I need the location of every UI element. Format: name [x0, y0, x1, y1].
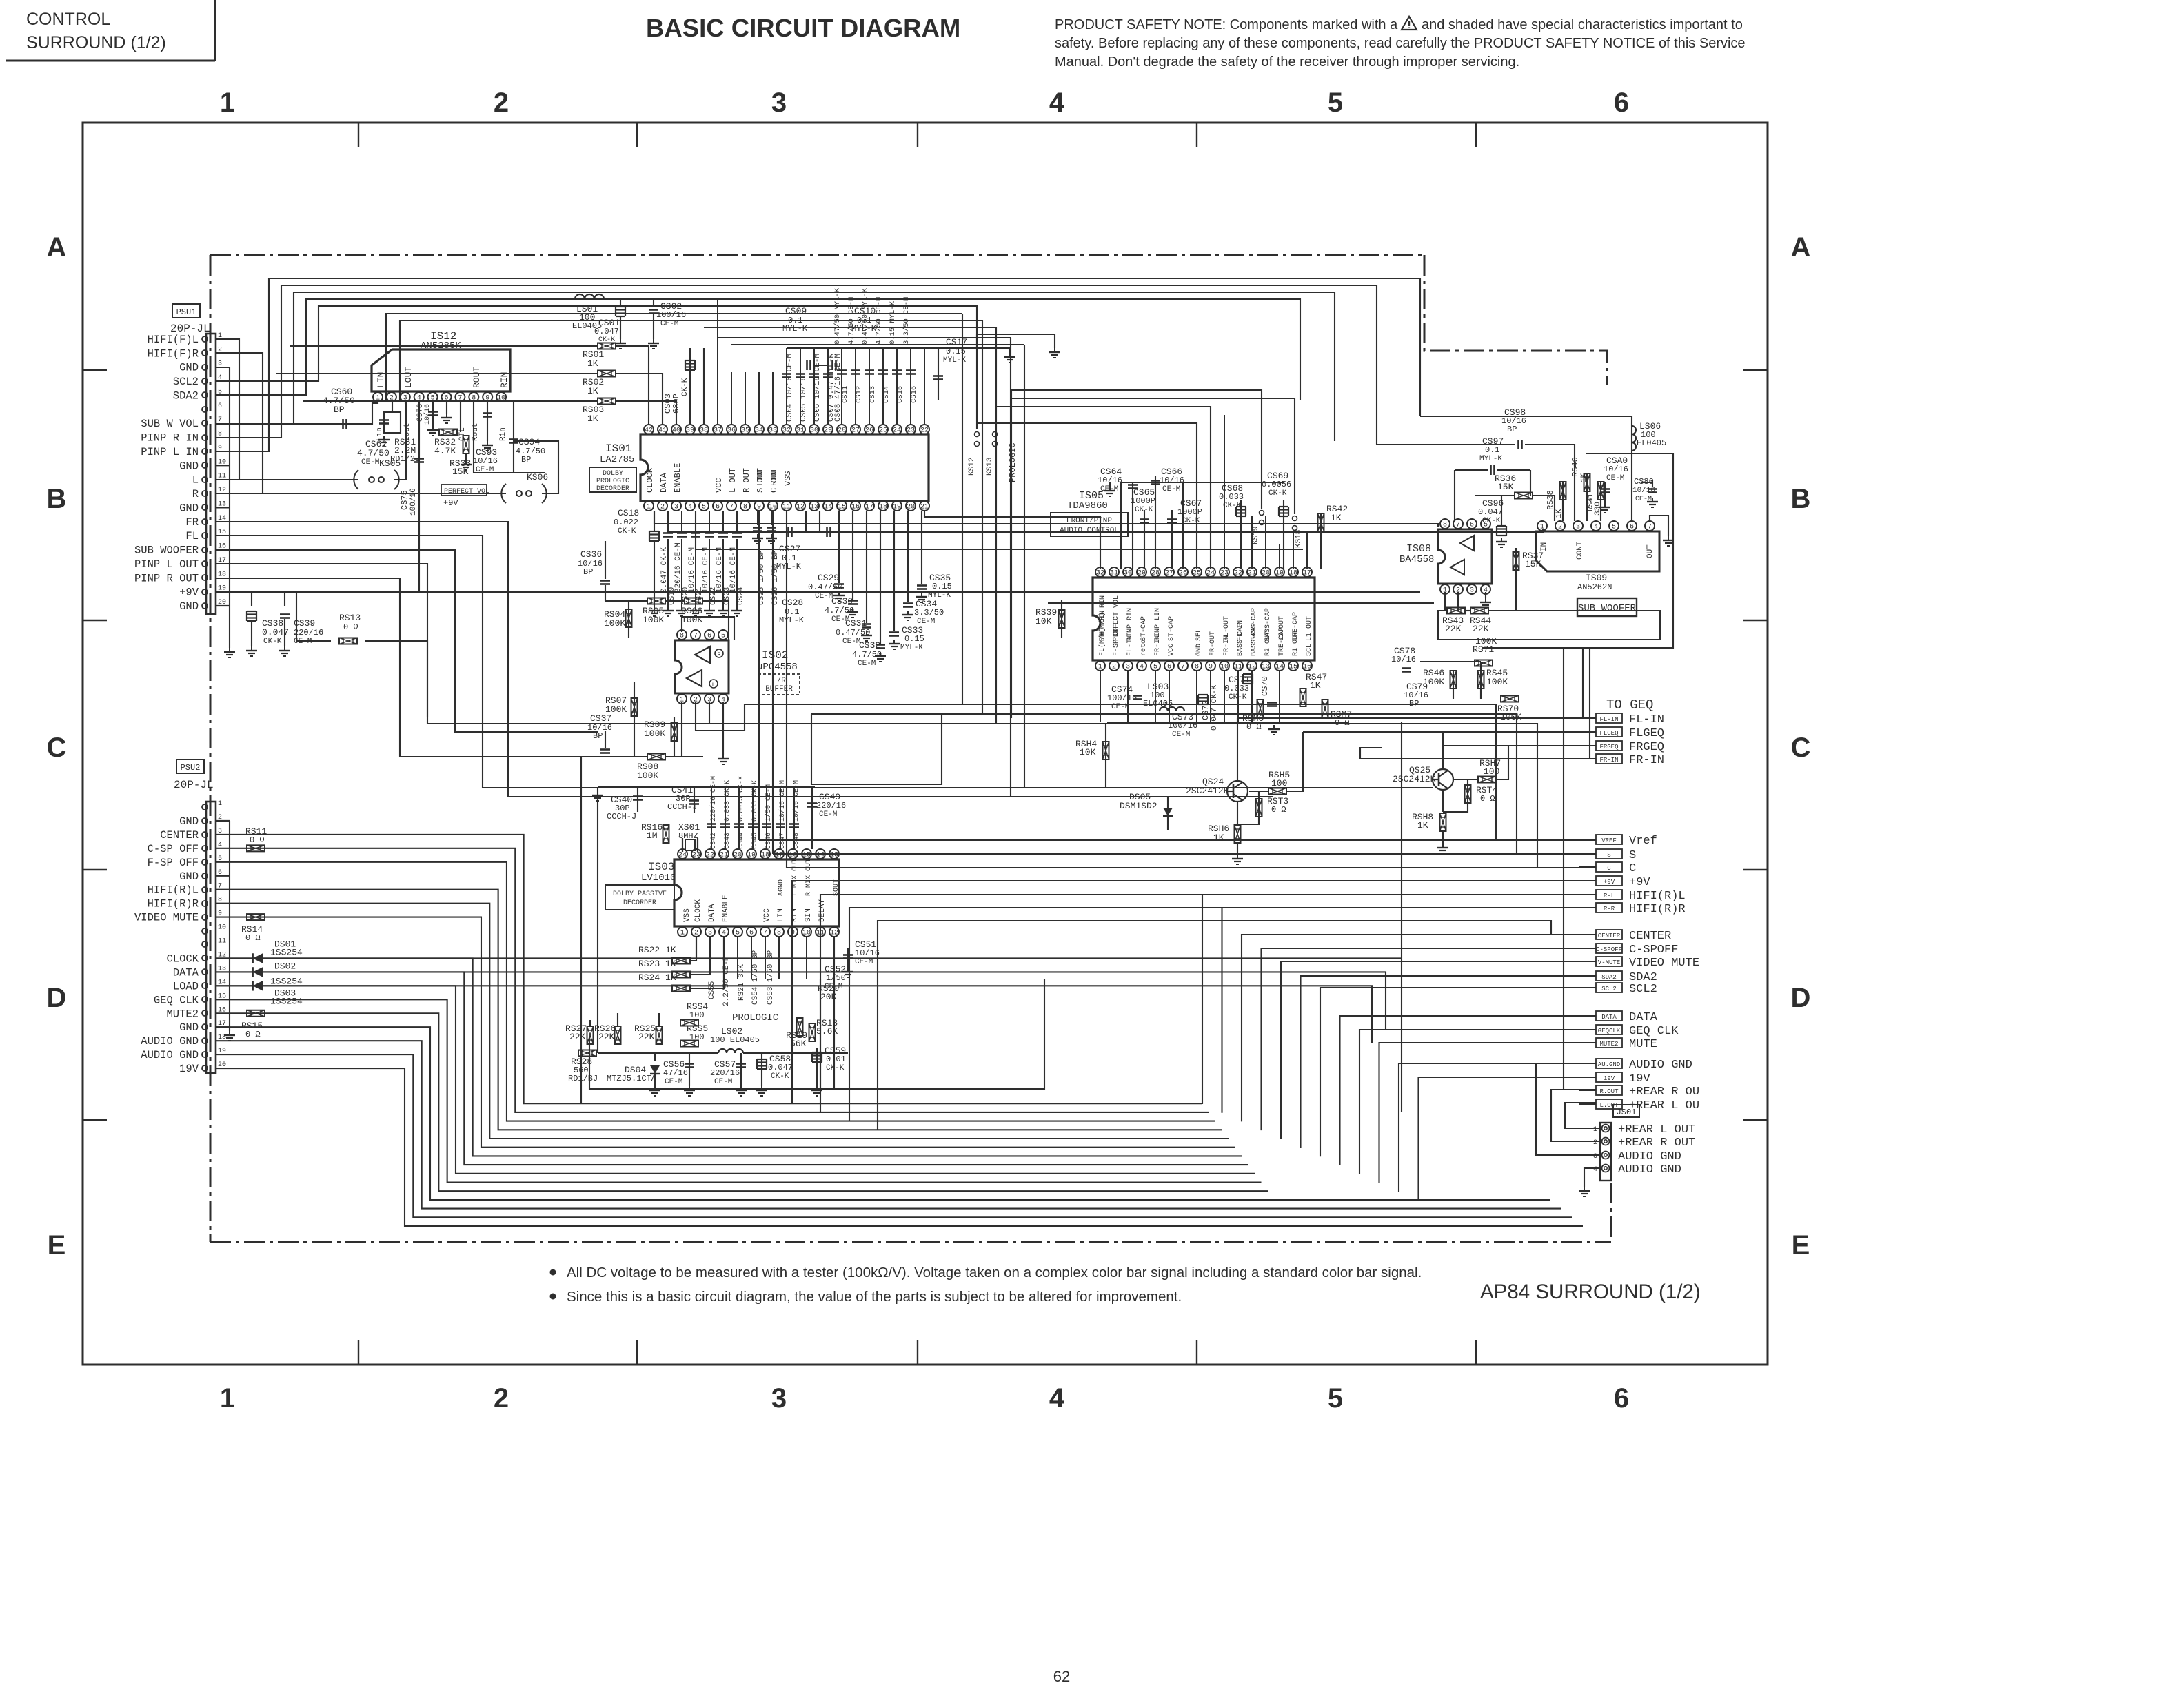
IS12 pin 5: [428, 392, 438, 402]
svg-text:KS06: KS06: [527, 472, 548, 482]
svg-text:R MIX OUT: R MIX OUT: [805, 859, 813, 896]
connector P502 20P-JL: [206, 802, 216, 1073]
IC IS01 LA2785 dolby prologic decoder: [640, 434, 929, 501]
capacitor CS67: [1171, 510, 1173, 569]
svg-text:CE-M: CE-M: [842, 638, 860, 646]
IS08 bottom pin 3: [1467, 584, 1477, 594]
IS12 pin 1: [373, 392, 383, 402]
svg-text:13: 13: [830, 852, 838, 859]
IS05 top pin 28: [1151, 567, 1160, 577]
svg-text:2SC2412K: 2SC2412K: [1186, 786, 1229, 796]
ground IS12 pin6: [446, 400, 447, 414]
svg-text:22: 22: [706, 852, 714, 859]
wire riser to output: [1242, 935, 1596, 1121]
svg-text:10: 10: [769, 504, 777, 511]
svg-text:OUT: OUT: [1646, 544, 1655, 558]
capacitor CS21: [695, 511, 696, 531]
IS09 pin 7: [1645, 521, 1655, 531]
svg-text:PSU2: PSU2: [181, 763, 201, 773]
svg-text:CS94: CS94: [518, 437, 540, 447]
svg-text:AUDIO GND: AUDIO GND: [141, 1049, 199, 1061]
IC IS05 TDA9860 front/pinp audio control: [1093, 578, 1315, 660]
IS02 bottom pin 3: [705, 694, 714, 704]
svg-text:LOUT: LOUT: [403, 367, 414, 388]
pcb boundary dash-dot bottom edge: [210, 1241, 1611, 1243]
svg-text:0.01: 0.01: [826, 1054, 846, 1064]
connector JS01 pin 2: [1602, 1138, 1610, 1145]
wire bus above IS05 1: [1011, 390, 1262, 509]
IS05 top pin 20: [1261, 567, 1271, 577]
svg-text:41: 41: [658, 427, 667, 435]
svg-text:FR-IN: FR-IN: [1154, 635, 1162, 656]
IS03 top pin 22: [705, 849, 715, 859]
wire IS03 clock data enable down: [691, 937, 696, 961]
wire bus above IS05 3: [995, 407, 1211, 569]
svg-text:HIFI(F)L: HIFI(F)L: [148, 334, 199, 346]
svg-text:+REAR R OUT: +REAR R OUT: [1618, 1136, 1695, 1150]
wire riser to output: [1262, 948, 1597, 1130]
svg-text:GND: GND: [179, 502, 199, 514]
connector JS01: [1613, 1105, 1639, 1117]
connector P502 reference label PSU2: [176, 759, 204, 773]
svg-text:100: 100: [1271, 778, 1287, 788]
svg-text:CONTROL: CONTROL: [26, 10, 110, 29]
ground cap bus: [1009, 348, 1011, 353]
svg-text:D: D: [47, 983, 67, 1013]
svg-text:VSS: VSS: [683, 908, 691, 922]
IC IS09 AN5262N sub woofer amp: [1536, 531, 1659, 571]
svg-text:PINP R OUT: PINP R OUT: [134, 572, 199, 584]
resistor RST4: [1465, 785, 1471, 803]
wire bus from IS12 Lout riser: [400, 320, 982, 400]
net output label S: [1596, 849, 1622, 859]
svg-text:C-SPOFF: C-SPOFF: [1629, 944, 1678, 957]
svg-text:CE-M: CE-M: [917, 618, 935, 626]
svg-text:CS05 10/16: CS05 10/16: [800, 376, 808, 422]
IS01 bottom pin 14: [823, 501, 833, 511]
wire IS01 top pin stub: [717, 299, 718, 425]
capacitor CS18: [654, 511, 655, 531]
wire mid riser 1486: [1024, 345, 1025, 788]
wire riser to output: [1419, 1077, 1597, 1201]
svg-text:7: 7: [1456, 522, 1460, 529]
capacitor CS14: [878, 369, 888, 371]
IS05 bottom pin 9: [1206, 661, 1215, 671]
svg-text:20: 20: [907, 504, 915, 511]
svg-text:ENABLE: ENABLE: [673, 463, 682, 493]
resistor RS11: [247, 845, 265, 851]
svg-text:CS06 10/16 CE-M: CS06 10/16 CE-M: [813, 354, 822, 422]
IS03 bottom pin 4: [719, 927, 729, 937]
svg-text:8: 8: [1443, 522, 1447, 529]
svg-text:EL0405: EL0405: [1143, 699, 1173, 708]
IS05 bottom pin 7: [1178, 661, 1188, 671]
svg-text:38: 38: [700, 427, 708, 435]
svg-text:11: 11: [782, 504, 791, 511]
svg-text:CS10: CS10: [854, 306, 876, 316]
IS05 top pin 19: [1275, 567, 1284, 577]
svg-text:EL0405: EL0405: [1637, 438, 1666, 448]
svg-text:AN5262N: AN5262N: [1577, 582, 1612, 592]
svg-text:23: 23: [907, 427, 915, 435]
svg-text:220/16: 220/16: [710, 1068, 740, 1078]
IS01 top pin 41: [658, 425, 667, 434]
IS01 bottom pin 2: [658, 501, 667, 511]
capacitor CS51: [843, 954, 853, 956]
capacitor CS66: [1155, 476, 1156, 569]
svg-text:0.1: 0.1: [1485, 445, 1500, 455]
IS01 top pin 33: [768, 425, 778, 434]
resistor RS26: [615, 1026, 621, 1044]
svg-text:IS08: IS08: [1406, 543, 1431, 555]
IS08 bottom pin 4: [1481, 584, 1490, 594]
resistor RS07: [631, 698, 638, 716]
svg-text:5: 5: [1153, 664, 1157, 671]
wire mid riser 1396: [962, 314, 963, 704]
wire riser from IS09 loop to Vref area: [1582, 648, 1584, 718]
IS08 top pin 7: [1453, 519, 1463, 529]
svg-text:100/16: 100/16: [410, 488, 418, 516]
IS02 op-amp A triangle: [695, 646, 710, 663]
svg-text:4.7/50: 4.7/50: [852, 650, 882, 660]
svg-text:8: 8: [680, 633, 684, 640]
pcb boundary dash-dot right stub near JS01: [1610, 1183, 1612, 1242]
svg-text:32: 32: [1096, 570, 1104, 578]
IS01 bottom pin 12: [796, 501, 805, 511]
svg-text:SCL2: SCL2: [1601, 986, 1617, 992]
connector P501 pin 11: [202, 477, 208, 482]
IS02 top pin 6: [705, 630, 714, 640]
wire IS09 out loop: [1650, 516, 1668, 536]
capacitor CS16: [906, 369, 916, 371]
wire RS05-RS06 row: [605, 600, 647, 602]
resistor RS41: [1598, 482, 1604, 500]
frame tick bottom: [1475, 1340, 1477, 1365]
net output label AUDIO GND: [1596, 1059, 1622, 1068]
wire L line with switch KS05: [216, 479, 358, 480]
svg-text:All DC voltage to be measured: All DC voltage to be measured with a tes…: [567, 1265, 1422, 1281]
wire LOAD to IS03: [216, 986, 1372, 1043]
svg-text:1: 1: [220, 1383, 235, 1414]
svg-text:CENTER: CENTER: [1629, 930, 1671, 943]
svg-text:FR: FR: [185, 516, 199, 529]
wire P501 pin 14 run: [216, 522, 508, 797]
svg-text:8: 8: [777, 930, 781, 937]
svg-text:0.047: 0.047: [594, 327, 619, 336]
svg-text:14: 14: [1275, 664, 1284, 671]
switch KS05: [354, 470, 358, 489]
svg-text:39: 39: [686, 427, 694, 435]
svg-text:CS39: CS39: [294, 618, 315, 629]
svg-text:10/16 CE-M: 10/16 CE-M: [792, 780, 800, 822]
wire HIFI(F)L down to L line: [216, 339, 239, 480]
wire mid H5 QS25 base: [483, 787, 1433, 788]
svg-text:CS75: CS75: [400, 490, 410, 510]
svg-text:L1 OUT: L1 OUT: [1306, 616, 1313, 641]
svg-text:CE-M: CE-M: [1111, 703, 1129, 711]
IS03 top pin 18: [760, 849, 770, 859]
svg-text:100K: 100K: [1500, 712, 1521, 722]
svg-text:CS28: CS28: [782, 598, 803, 608]
svg-text:1: 1: [680, 930, 685, 937]
connector P501 pin 8: [202, 435, 208, 440]
IS05 top pin 23: [1220, 567, 1229, 577]
svg-text:RS24 1K: RS24 1K: [638, 972, 676, 983]
svg-text:GEQCLK: GEQCLK: [1598, 1028, 1621, 1034]
svg-text:IS02: IS02: [762, 649, 788, 662]
wire riser to output: [1359, 1030, 1596, 1174]
IS09 pin 5: [1609, 521, 1619, 531]
capacitor CS93: [487, 400, 488, 441]
svg-text:16: 16: [1303, 664, 1311, 671]
connector P502 pin 14: [202, 983, 208, 988]
svg-text:10K: 10K: [1080, 747, 1096, 757]
IS02 function label box L/R BUFFER: [758, 674, 800, 695]
svg-text:8MHZ: 8MHZ: [678, 831, 698, 841]
svg-text:10: 10: [218, 924, 226, 932]
IS09 pin 6: [1627, 521, 1637, 531]
capacitor CS39: [284, 592, 285, 606]
svg-text:RS38: RS38: [1546, 490, 1555, 510]
wire GEQ FRGEQ line: [1443, 745, 1596, 746]
wire IS02 pin4 gnd: [722, 702, 724, 755]
IS12 pin 7: [455, 392, 465, 402]
wire IS02 pin2 loop right: [696, 702, 745, 731]
svg-text:E: E: [48, 1230, 66, 1261]
IS01 bottom pin 13: [809, 501, 819, 511]
svg-text:21: 21: [1248, 570, 1256, 578]
wire top bus: [216, 299, 1300, 400]
IS03 bottom pin 10: [802, 927, 811, 937]
svg-text:CS29: CS29: [818, 573, 839, 583]
svg-text:0.15: 0.15: [904, 634, 924, 644]
svg-text:ENABLE: ENABLE: [722, 895, 730, 922]
svg-text:R: R: [192, 488, 199, 500]
svg-text:3: 3: [771, 1383, 787, 1414]
capacitor CS11: [837, 369, 847, 371]
resistor RS25: [656, 1026, 663, 1044]
capacitor CS68: [1236, 506, 1246, 507]
svg-text:CS53 1/50 BP: CS53 1/50 BP: [767, 950, 775, 1005]
svg-text:CE-M: CE-M: [1635, 496, 1652, 503]
svg-text:PINP L OUT: PINP L OUT: [134, 558, 199, 571]
svg-text:MYL-K: MYL-K: [1479, 455, 1502, 463]
svg-text:and shaded have special charac: and shaded have special characteristics …: [1422, 17, 1743, 32]
connector P502 pin 1: [202, 804, 208, 810]
wire row B long 3: [924, 511, 1100, 569]
svg-text:CE-M: CE-M: [1162, 485, 1180, 493]
svg-text:CS04 10/16 CE-M: CS04 10/16 CE-M: [786, 354, 794, 422]
wire IS01 top pin stub: [772, 372, 774, 425]
connector P502 pin 20: [202, 1065, 208, 1071]
wire GEQ FR-IN line: [1360, 758, 1596, 759]
IS03 bottom pin 9: [788, 927, 798, 937]
connector P502 pin 13: [202, 969, 208, 975]
capacitor CS31: [866, 511, 867, 623]
capacitor CS64: [1132, 482, 1133, 569]
svg-text:220/16 CE-M: 220/16 CE-M: [709, 776, 718, 822]
connector P502 pin 15: [202, 997, 208, 1002]
svg-text:CK-K: CK-K: [771, 1072, 789, 1081]
svg-text:100K: 100K: [1486, 677, 1508, 687]
resistor RS18: [797, 1018, 803, 1036]
svg-text:RIN: RIN: [499, 372, 509, 388]
svg-text:SIN: SIN: [805, 908, 813, 922]
svg-text:2: 2: [1558, 524, 1562, 531]
svg-text:CLOCK: CLOCK: [645, 467, 655, 493]
IS01 top pin 36: [727, 425, 736, 434]
wire P501 pin3 gnd rail: [216, 367, 230, 648]
wire KS12 KS13 marks: [975, 432, 980, 437]
resistor RS45: [1478, 671, 1484, 689]
svg-text:1: 1: [218, 800, 222, 808]
IS01 top pin 32: [782, 425, 791, 434]
svg-text:DOLBY: DOLBY: [603, 470, 623, 478]
capacitor CS41: [689, 799, 699, 802]
IS05 top pin 18: [1288, 567, 1298, 577]
wire IS01 vcc down from bus: [703, 348, 705, 425]
capacitor CS65: [1144, 510, 1145, 569]
svg-text:4: 4: [1049, 1383, 1065, 1414]
svg-text:HIFI(R)R: HIFI(R)R: [148, 898, 199, 910]
IS01 bottom pin 15: [837, 501, 847, 511]
svg-text:5: 5: [721, 633, 725, 640]
svg-text:100K: 100K: [643, 615, 664, 625]
IS03 bottom pin 12: [829, 927, 839, 937]
wire LS02 row: [598, 1052, 718, 1054]
svg-text:2: 2: [1112, 664, 1116, 671]
svg-text:1: 1: [647, 504, 651, 511]
svg-text:10/16: 10/16: [473, 456, 498, 466]
pcb boundary dash-dot top edge: [210, 254, 1424, 256]
svg-text:20: 20: [1262, 570, 1270, 578]
svg-text:CE-M: CE-M: [361, 458, 379, 467]
IS05 bottom pin 11: [1233, 661, 1243, 671]
frame tick left: [83, 1119, 107, 1121]
svg-text:18: 18: [879, 504, 887, 511]
IS01 top pin 39: [685, 425, 695, 434]
svg-text:3: 3: [674, 504, 678, 511]
svg-text:DSM1SD2: DSM1SD2: [1120, 801, 1157, 811]
svg-text:CK-K: CK-K: [1135, 506, 1153, 514]
svg-text:15: 15: [838, 504, 846, 511]
svg-text:40: 40: [672, 427, 680, 435]
svg-text:4: 4: [688, 504, 692, 511]
wire row B long 4: [696, 511, 1303, 549]
svg-text:IS03: IS03: [648, 861, 674, 873]
svg-text:CS31: CS31: [845, 618, 867, 629]
svg-text:SUB W VOL: SUB W VOL: [141, 418, 199, 430]
svg-text:A: A: [1791, 232, 1811, 263]
svg-text:CS14: CS14: [882, 386, 891, 403]
svg-text:CE-M: CE-M: [815, 592, 833, 600]
svg-text:R-R: R-R: [1604, 906, 1615, 912]
connector P502 pin 6: [202, 873, 208, 879]
capacitor CS36: [605, 541, 606, 579]
svg-text:CE-M: CE-M: [819, 810, 837, 819]
svg-text:CENTER: CENTER: [1598, 932, 1621, 939]
wire P501 pin 16 run: [216, 550, 598, 732]
resistor RS43: [1447, 608, 1465, 614]
svg-text:3: 3: [1126, 664, 1130, 671]
wire row B long 1: [654, 511, 1438, 527]
wire row B long 2: [668, 511, 1543, 532]
svg-text:DATA: DATA: [659, 472, 669, 493]
svg-text:KS13: KS13: [986, 458, 994, 476]
svg-text:ST-CAP: ST-CAP: [1168, 616, 1175, 641]
svg-text:2: 2: [494, 88, 509, 118]
svg-text:11: 11: [1234, 664, 1242, 671]
svg-text:+9V: +9V: [179, 587, 199, 599]
diode DS01 1SS254: [253, 953, 263, 963]
svg-text:7: 7: [729, 504, 734, 511]
IS12 pin 9: [483, 392, 492, 402]
svg-text:0.033: 0.033: [1224, 684, 1249, 693]
wire IS12 pin4: [418, 400, 420, 593]
svg-text:BUFFER: BUFFER: [765, 685, 793, 693]
svg-text:VCC: VCC: [714, 478, 724, 493]
capacitor CS02: [653, 299, 654, 306]
wire IS01 top pin stub: [910, 348, 911, 425]
svg-text:21: 21: [720, 852, 728, 859]
resistor RS37: [1513, 552, 1519, 570]
svg-text:BA4558: BA4558: [1399, 554, 1434, 565]
capacitor CS62: [379, 419, 389, 421]
svg-text:0 Ω: 0 Ω: [1271, 805, 1286, 815]
svg-text:reto: reto: [1140, 640, 1148, 656]
svg-text:100K: 100K: [637, 771, 658, 781]
svg-text:PERFECT VOL: PERFECT VOL: [444, 488, 489, 496]
svg-text:CS17: CS17: [946, 337, 967, 347]
svg-text:HIFI(R)R: HIFI(R)R: [1629, 903, 1686, 916]
svg-text:LOAD: LOAD: [173, 980, 199, 992]
svg-text:33: 33: [769, 427, 777, 435]
svg-text:GND: GND: [179, 460, 199, 472]
resistor RS46: [1450, 671, 1457, 689]
frame tick bottom: [358, 1340, 359, 1365]
IS01 top pin 27: [851, 425, 860, 434]
svg-text:5: 5: [1328, 1383, 1343, 1414]
IS03 top pin 17: [774, 849, 784, 859]
IS03 top pin 24: [678, 849, 687, 859]
svg-text:12: 12: [1248, 664, 1256, 671]
svg-text:PINP L IN: PINP L IN: [141, 446, 199, 458]
wire riser +9V: [792, 881, 1596, 1103]
svg-text:FL-IN: FL-IN: [1599, 716, 1618, 723]
svg-text:DATA: DATA: [1629, 1011, 1658, 1024]
svg-text:CS43: CS43: [724, 833, 731, 849]
capacitor CS26: [771, 511, 772, 525]
ground IS05 bus: [1109, 482, 1111, 487]
svg-text:0.0015 CK-X: 0.0015 CK-X: [738, 776, 745, 822]
svg-text:6: 6: [1614, 88, 1629, 118]
svg-text:10/16 CE-M: 10/16 CE-M: [688, 547, 696, 593]
connector P502 pin 11: [202, 941, 208, 947]
svg-text:1K: 1K: [1555, 509, 1564, 518]
svg-text:10/16 CE-M: 10/16 CE-M: [702, 547, 710, 593]
svg-text:B: B: [1791, 484, 1811, 514]
svg-text:SDA2: SDA2: [1601, 974, 1617, 981]
IS03 bottom pin 7: [760, 927, 770, 937]
net output label C-SPOFF: [1596, 944, 1622, 953]
net output label SDA2: [1596, 971, 1622, 981]
transistor QS25 2SC2412K: [1433, 769, 1453, 790]
IS01 top pin 42: [644, 425, 654, 434]
svg-text:CK-K: CK-K: [1228, 693, 1247, 702]
svg-text:DATA: DATA: [1601, 1014, 1617, 1021]
connector P502 pin 16: [202, 1010, 208, 1016]
svg-text:PROLOGIC: PROLOGIC: [1008, 442, 1018, 482]
